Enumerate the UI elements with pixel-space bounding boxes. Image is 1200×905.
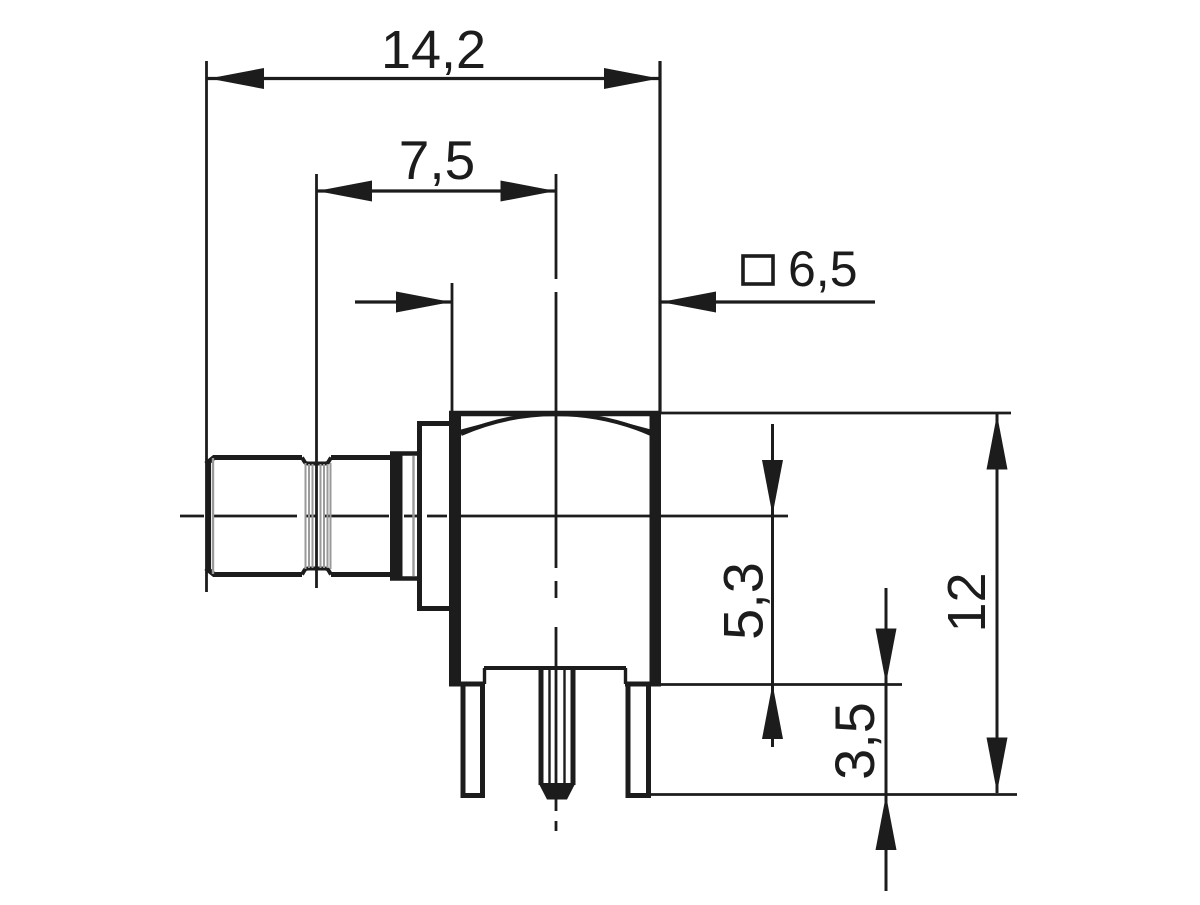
shelf step left (483, 668, 486, 684)
square symbol for 6,5 (743, 256, 773, 284)
arrow 12 top (pointing up) (987, 415, 1008, 470)
dimension 6,5 line right tail (661, 300, 875, 303)
extension line 6,5 left (451, 283, 454, 411)
extension line body bottom right (661, 683, 902, 686)
arrow 3,5 bottom (pointing up) (876, 795, 897, 850)
svg-text:6,5: 6,5 (788, 241, 858, 297)
arrow 6,5 left (pointing right) (396, 292, 451, 313)
dimension 6,5 line left tail (355, 300, 451, 303)
flange (417, 422, 452, 611)
pin tip (539, 783, 576, 800)
body top edge (449, 411, 661, 417)
svg-text:5,3: 5,3 (712, 562, 775, 640)
dimension 12 line (996, 414, 999, 793)
dimension 7,5 line (316, 189, 556, 192)
body inner bottom shelf (484, 666, 626, 670)
ring face detail line (412, 456, 414, 576)
arrow 6,5 right (pointing left) (661, 292, 716, 313)
arrow 5,3 bottom (pointing up) (762, 684, 783, 739)
dome chamfer right (607, 420, 652, 432)
arrow 7,5 right (501, 181, 556, 202)
extension line legs bottom right (650, 793, 1017, 796)
extension line body top right (661, 412, 1011, 415)
horizontal centerline of plug (180, 515, 788, 518)
svg-text:3,5: 3,5 (823, 702, 886, 780)
extension line 14,2 left (205, 61, 208, 592)
center pin (541, 668, 573, 785)
dimension 5,3 line (771, 424, 774, 747)
extension line 7,5 left (315, 174, 318, 588)
plug tip chamfer inner line (212, 458, 214, 574)
svg-text:7,5: 7,5 (399, 129, 475, 191)
body bottom face left (449, 682, 485, 687)
plug second cylinder (331, 458, 390, 575)
ring dark band (390, 452, 403, 580)
body bottom face right (625, 682, 661, 687)
plug tip cylinder (206, 458, 302, 575)
pin inner lines (550, 669, 565, 784)
body left wall (449, 411, 461, 686)
plug groove (302, 458, 331, 464)
dimension 3,5 line (885, 588, 888, 891)
shelf step right (624, 668, 627, 684)
right leg (626, 684, 652, 796)
ring face (390, 454, 418, 579)
left leg (461, 684, 486, 796)
extension line 14,2 right / body right edge upper (658, 61, 661, 412)
dimension 14,2 line (207, 77, 661, 80)
arrow 3,5 top (pointing down) (876, 629, 897, 684)
svg-text:14,2: 14,2 (381, 20, 486, 80)
dome chamfer left (460, 420, 505, 432)
arrow 5,3 top (pointing down) (762, 460, 783, 515)
body right wall (650, 411, 662, 686)
arrow 12 bottom (pointing down) (987, 738, 1008, 793)
arrow 14,2 left (209, 68, 264, 89)
insulator dome arc (461, 414, 651, 434)
arrow 14,2 right (604, 68, 659, 89)
svg-text:12: 12 (937, 572, 997, 632)
vertical centerline of body (also 7,5 right extension) (555, 174, 558, 831)
groove detail lines (306, 463, 331, 569)
arrow 7,5 left (317, 181, 372, 202)
